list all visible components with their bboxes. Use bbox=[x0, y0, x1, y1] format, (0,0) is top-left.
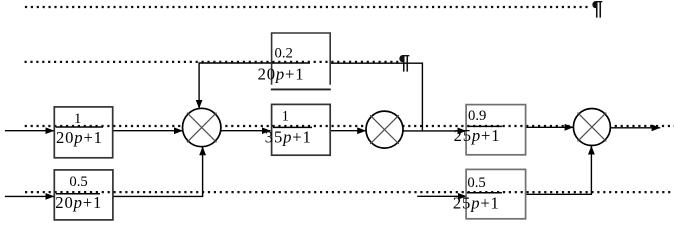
svg-text:¶: ¶ bbox=[592, 0, 603, 20]
block T 0.2/(20p+1) bbox=[258, 33, 331, 89]
wire block T output down into sum1 bbox=[199, 63, 272, 109]
wire input arrow row 3 bbox=[5, 130, 54, 132]
wire block1 to sum1 bbox=[113, 130, 183, 132]
svg-text:0.2: 0.2 bbox=[275, 46, 293, 62]
svg-text:1: 1 bbox=[74, 111, 81, 127]
block3 0.9/(25p+1) bbox=[454, 105, 526, 155]
wire dotted text row 1 bbox=[25, 6, 591, 8]
svg-text:35p+1: 35p+1 bbox=[265, 127, 312, 146]
block4 0.5/(20p+1) bbox=[54, 170, 113, 220]
svg-text:0.5: 0.5 bbox=[69, 174, 87, 190]
block2 1/(35p+1) bbox=[265, 104, 330, 155]
wire block2 to sum2 bbox=[330, 130, 366, 132]
svg-text:25p+1: 25p+1 bbox=[453, 194, 500, 213]
wire tap after sum2 up to block T input bbox=[330, 63, 422, 131]
wire block4 output up into sum1 bottom bbox=[113, 147, 202, 197]
wire block3 to sum3 bbox=[526, 126, 573, 128]
svg-text:25p+1: 25p+1 bbox=[454, 126, 501, 145]
wire input arrow row 4 bbox=[5, 195, 54, 197]
sum junction 2 bbox=[366, 111, 403, 148]
wire dotted text row 2 bbox=[25, 61, 399, 63]
wire dotted text row 4 bbox=[25, 191, 674, 193]
block5 0.5/(25p+1) bbox=[453, 169, 526, 218]
wire into block5 bbox=[417, 195, 466, 197]
sum junction 3 bbox=[573, 109, 610, 146]
wire block5 output up into sum3 bottom bbox=[525, 146, 591, 194]
svg-text:¶: ¶ bbox=[399, 51, 410, 74]
svg-text:0.5: 0.5 bbox=[467, 175, 485, 191]
svg-text:0.9: 0.9 bbox=[468, 108, 486, 124]
svg-text:20p+1: 20p+1 bbox=[56, 128, 103, 147]
svg-text:20p+1: 20p+1 bbox=[55, 193, 102, 212]
wire sum2 to block3 bbox=[403, 130, 466, 132]
wire dotted text row 3 bbox=[25, 125, 674, 127]
svg-text:1: 1 bbox=[282, 108, 289, 124]
wire output arrow bbox=[610, 127, 660, 129]
sum junction 1 bbox=[183, 108, 221, 146]
svg-text:20p+1: 20p+1 bbox=[258, 65, 305, 84]
block1 1/(20p+1) bbox=[54, 107, 112, 158]
wire sum1 to block2 bbox=[221, 130, 271, 132]
